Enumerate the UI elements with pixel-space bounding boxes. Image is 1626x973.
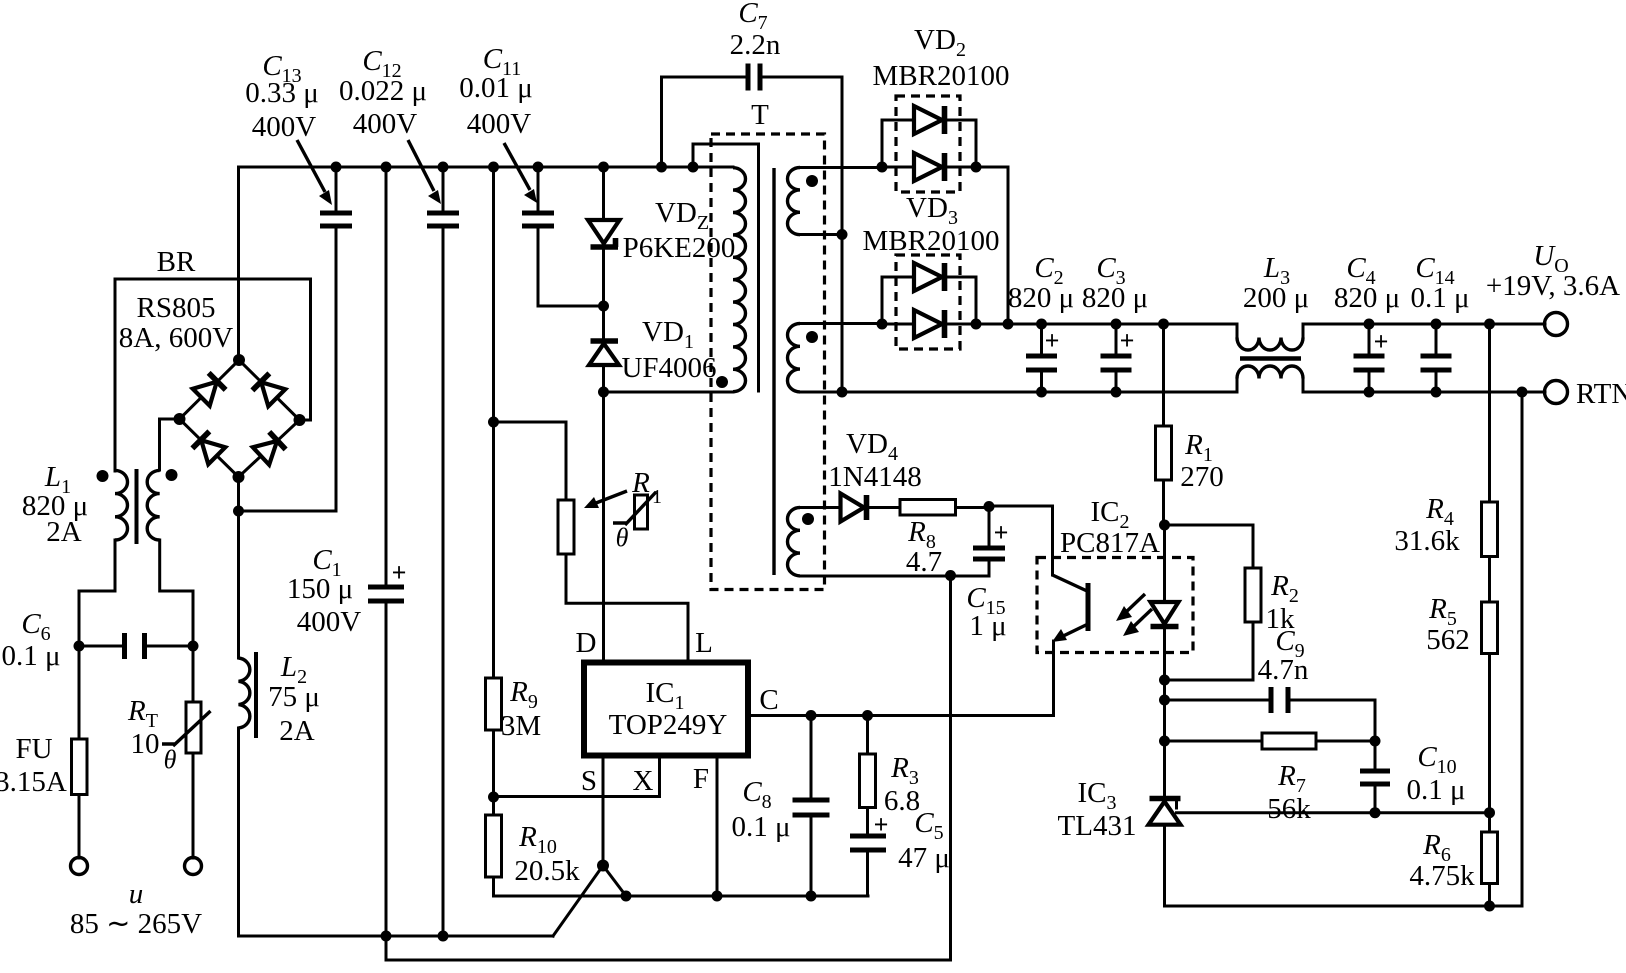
svg-text:820 μ: 820 μ: [1082, 282, 1148, 314]
wire L1 right bottom to C6 right node: [160, 540, 193, 702]
label R4: [1425, 493, 1454, 530]
capacitor C13: [239, 167, 353, 511]
inductor L2: [239, 652, 257, 738]
capacitor C1 bulk: [368, 167, 406, 960]
label L3: [1263, 252, 1290, 289]
svg-text:2A: 2A: [279, 715, 315, 747]
wire VD2 cathode to output rail: [976, 167, 1008, 324]
IC2 dashed box: [1037, 558, 1193, 653]
svg-text:150 μ: 150 μ: [287, 573, 353, 605]
label 400V C1: [297, 606, 362, 638]
wire primary ground bottom line: [386, 959, 951, 962]
svg-text:4.7n: 4.7n: [1258, 654, 1309, 686]
label UF4006: [621, 352, 716, 384]
label VD4: [846, 428, 898, 465]
svg-text:2.2n: 2.2n: [730, 29, 781, 61]
label pin S: [581, 765, 597, 797]
label C9: [1275, 625, 1304, 662]
wire secondary top bottom-end to C7 return: [800, 233, 842, 236]
rectifier VD2 parallel pair wires: [882, 120, 976, 167]
VD2 dashed box: [896, 96, 960, 192]
transformer T dashed box: [711, 134, 825, 590]
wire aux return line: [800, 575, 989, 578]
arrow pointer C11: [504, 143, 537, 203]
wire bridge left AC node to L1 right winding: [160, 419, 180, 470]
svg-text:820 μ: 820 μ: [1334, 282, 1400, 314]
label VD1: [642, 316, 694, 353]
svg-text:+: +: [994, 518, 1009, 547]
svg-text:+: +: [874, 810, 889, 839]
svg-text:+19V, 3.6A: +19V, 3.6A: [1486, 270, 1620, 302]
wire X pin bracket to divider: [494, 758, 660, 797]
svg-text:0.1 μ: 0.1 μ: [731, 811, 790, 843]
svg-text:1 μ: 1 μ: [969, 610, 1006, 642]
svg-text:BR: BR: [157, 246, 196, 278]
capacitor C9: [1165, 687, 1376, 741]
svg-text:+: +: [1120, 326, 1135, 355]
transformer secondary winding top: [788, 168, 801, 235]
svg-text:47 μ: 47 μ: [898, 842, 950, 874]
svg-text:270: 270: [1180, 461, 1224, 493]
capacitor C5: [850, 810, 888, 896]
label TOP249Y: [609, 709, 728, 741]
svg-text:+: +: [392, 558, 407, 587]
svg-text:56k: 56k: [1267, 793, 1311, 825]
svg-text:0.01 μ: 0.01 μ: [459, 72, 533, 104]
arrow pointer C12: [408, 140, 441, 204]
wire bridge right AC node to L1 left winding: [115, 279, 311, 471]
label 31.6k: [1394, 525, 1460, 557]
label +19V 3.6A: [1486, 270, 1620, 302]
resistor R4: [1482, 324, 1498, 602]
svg-text:C: C: [759, 684, 778, 716]
svg-text:3M: 3M: [501, 710, 541, 742]
label pin F: [693, 763, 709, 795]
label 562: [1426, 624, 1470, 656]
terminal UO: [1545, 313, 1568, 336]
label 400V C11: [467, 108, 532, 140]
label u: [129, 878, 144, 910]
diode VD2 upper: [914, 106, 945, 134]
wire top DC bus rail: [239, 166, 734, 169]
diode VD2 lower: [914, 153, 945, 181]
label 0.022u: [339, 75, 427, 107]
label BR: [157, 246, 196, 278]
label VD2: [914, 24, 966, 61]
diode VD1: [589, 341, 619, 392]
label 10: [131, 728, 160, 760]
fuse FU: [72, 739, 88, 795]
svg-text:400V: 400V: [297, 606, 362, 638]
label R6: [1422, 829, 1451, 866]
diode BR bottom-right: [253, 432, 286, 465]
capacitor C6: [79, 633, 193, 659]
wire VD4 to R8: [867, 506, 901, 509]
label pin C: [759, 684, 778, 716]
label 20.5k: [514, 855, 580, 887]
svg-text:MBR20100: MBR20100: [873, 60, 1010, 92]
wire C pin line: [751, 714, 1054, 717]
diode BR bottom-left: [192, 431, 225, 464]
L1 polarity dot right: [166, 469, 178, 481]
secondary top polarity dot: [806, 175, 818, 187]
label 3.15A: [0, 766, 67, 798]
svg-text:MBR20100: MBR20100: [863, 225, 1000, 257]
label FU: [15, 733, 52, 765]
svg-text:θ: θ: [616, 523, 629, 552]
label R10: [518, 821, 557, 858]
label C3: [1096, 252, 1125, 289]
resistor R2: [1245, 568, 1261, 622]
L1 polarity dot left: [97, 470, 109, 482]
svg-text:L: L: [695, 627, 713, 659]
transformer auxiliary winding: [788, 508, 801, 576]
JUNCTION-DOTS: [74, 162, 1528, 942]
label 47u: [898, 842, 950, 874]
label 8A 600V: [119, 322, 233, 354]
transformer shield line connected to rail: [693, 144, 759, 391]
svg-text:0.022 μ: 0.022 μ: [339, 75, 427, 107]
label IC1: [646, 677, 685, 714]
resistor R7: [1165, 733, 1376, 749]
svg-text:1N4148: 1N4148: [828, 461, 921, 493]
label pin D: [576, 627, 597, 659]
label MBR20100 VD2: [873, 60, 1010, 92]
wire secondary top to VD2: [800, 166, 882, 169]
wire aux winding to VD4: [800, 506, 840, 509]
auxiliary polarity dot: [802, 513, 814, 525]
label 1N4148: [828, 461, 921, 493]
svg-text:+: +: [1374, 327, 1389, 356]
label L2: [280, 651, 307, 688]
label 0.1u C14: [1410, 282, 1469, 314]
svg-text:200 μ: 200 μ: [1243, 282, 1309, 314]
diode BR top-left: [193, 373, 226, 406]
arrow pointer Rx1: [584, 491, 627, 508]
label Rx1 with thermistor glyph: [613, 467, 662, 552]
svg-text:T: T: [751, 99, 769, 131]
svg-text:0.1 μ: 0.1 μ: [1406, 774, 1465, 806]
label C5: [914, 807, 943, 844]
svg-text:UF4006: UF4006: [621, 352, 716, 384]
svg-text:820 μ: 820 μ: [1008, 282, 1074, 314]
label 820u: [22, 490, 88, 522]
svg-text:RTN: RTN: [1576, 378, 1626, 410]
thermistor RT: [162, 702, 211, 753]
label IC3: [1078, 777, 1117, 814]
label RTN: [1576, 378, 1626, 410]
terminal RTN: [1545, 381, 1568, 404]
label C14: [1415, 252, 1454, 289]
capacitor C2: [1026, 324, 1059, 392]
label 6.8: [884, 785, 920, 817]
bridge rectifier BR diamond wires: [180, 360, 300, 477]
svg-text:3.15A: 3.15A: [0, 766, 67, 798]
opto LED: [1151, 525, 1179, 680]
svg-text:8A, 600V: 8A, 600V: [119, 322, 233, 354]
svg-text:75 μ: 75 μ: [268, 681, 320, 713]
svg-text:u: u: [129, 878, 144, 910]
svg-text:0.33 μ: 0.33 μ: [245, 77, 319, 109]
terminal input left: [71, 858, 88, 875]
label 1u: [969, 610, 1006, 642]
label VDZ: [655, 197, 709, 234]
svg-text:FU: FU: [15, 733, 52, 765]
svg-text:+: +: [1045, 326, 1060, 355]
wire aux return to bottom line: [949, 576, 952, 961]
opto light arrows: [1116, 594, 1152, 636]
wire R10 bottom to source return line: [494, 877, 869, 896]
label 400V C12: [353, 108, 418, 140]
wire ground diagonal to S node: [553, 866, 603, 937]
label 0.01u: [459, 72, 533, 104]
capacitor C11: [522, 167, 604, 306]
wire bridge plus to rail: [237, 167, 240, 360]
wire VDZ to VD1 node: [602, 247, 605, 341]
label P6KE200: [623, 232, 736, 264]
label R3: [890, 752, 919, 789]
svg-text:RS805: RS805: [137, 292, 216, 324]
label R8: [907, 516, 936, 553]
svg-text:PC817A: PC817A: [1060, 527, 1160, 559]
capacitor C7: [662, 64, 843, 393]
label C7: [738, 0, 767, 34]
transformer secondary winding bottom: [788, 324, 801, 392]
label pin X: [633, 765, 654, 797]
label 2A L2: [279, 715, 315, 747]
wire R1 to R2: [1165, 525, 1254, 568]
capacitor C10: [1360, 741, 1390, 813]
label 0.1u: [1, 640, 60, 672]
resistor R3: [860, 716, 876, 837]
wire cathode node vertical: [1163, 680, 1166, 799]
label 4.75k: [1409, 860, 1475, 892]
capacitor C4: [1354, 324, 1389, 392]
label 2A: [46, 516, 82, 548]
svg-text:TOP249Y: TOP249Y: [609, 709, 728, 741]
svg-text:20.5k: 20.5k: [514, 855, 580, 887]
label UO: [1533, 240, 1568, 277]
label T: [751, 99, 769, 131]
label 0.33u: [245, 77, 319, 109]
svg-text:400V: 400V: [252, 111, 317, 143]
VD3 dashed box: [896, 255, 960, 349]
label C1: [312, 544, 341, 581]
resistor R8: [900, 500, 956, 516]
label L1: [44, 461, 71, 498]
wire VDZ branch from rail: [602, 167, 605, 220]
wire plus19 rail: [976, 323, 1545, 326]
svg-text:400V: 400V: [353, 108, 418, 140]
wire TL431 anode ground line: [1165, 392, 1523, 906]
inductor L1 common-mode choke: [115, 469, 160, 544]
wire resistor Rx1 tap: [494, 167, 567, 678]
label 200u: [1243, 282, 1309, 314]
diode VD3 lower: [914, 310, 945, 338]
label R1: [1184, 429, 1213, 466]
label C8: [742, 776, 771, 813]
svg-text:0.1 μ: 0.1 μ: [1410, 282, 1469, 314]
wire bridge minus down through L2 to primary ground: [239, 477, 554, 936]
wire R9 to R10 with X tap: [492, 730, 495, 815]
label PC817A: [1060, 527, 1160, 559]
shunt regulator IC3 TL431: [1149, 799, 1490, 907]
label 75u: [268, 681, 320, 713]
label 2.2n: [730, 29, 781, 61]
wire Rx1 to L pin: [566, 554, 688, 661]
label C13: [262, 50, 301, 87]
svg-text:P6KE200: P6KE200: [623, 232, 736, 264]
resistor Rx1: [558, 500, 574, 554]
capacitor C8: [793, 716, 830, 897]
label 0.1u C10: [1406, 774, 1465, 806]
transformer core line: [772, 168, 775, 575]
svg-text:31.6k: 31.6k: [1394, 525, 1460, 557]
wire S node diagonal to return line: [603, 866, 626, 897]
rectifier VD3 parallel pair wires: [882, 277, 976, 324]
diode BR top-right: [252, 373, 285, 406]
label 400V C13: [252, 111, 317, 143]
wire VD1 anode to primary bottom and D pin: [604, 392, 734, 660]
capacitor C15: [973, 508, 1008, 576]
opto phototransistor: [1052, 575, 1088, 716]
capacitor C3: [1101, 324, 1135, 392]
svg-text:D: D: [576, 627, 597, 659]
label IC2: [1091, 496, 1130, 533]
label VD3: [906, 192, 958, 229]
label R5: [1428, 593, 1457, 630]
svg-text:TL431: TL431: [1058, 810, 1137, 842]
wire F pin to source return: [716, 758, 719, 896]
label RT: [127, 695, 158, 732]
label 4.7n: [1258, 654, 1309, 686]
capacitor C14: [1421, 324, 1452, 392]
label 4.7: [906, 546, 942, 578]
label C4: [1346, 252, 1375, 289]
svg-text:S: S: [581, 765, 597, 797]
label C15: [966, 582, 1005, 619]
zener VDZ: [588, 220, 620, 247]
label 1k: [1266, 603, 1296, 635]
resistor R10: [486, 815, 502, 877]
secondary bottom polarity dot: [806, 331, 818, 343]
wire R8 to C15 and opto collector: [956, 506, 1053, 575]
label 56k: [1267, 793, 1311, 825]
label 150u: [287, 573, 353, 605]
label pin L: [695, 627, 713, 659]
svg-text:2A: 2A: [46, 516, 82, 548]
label C10: [1417, 741, 1456, 778]
svg-text:θ: θ: [164, 745, 177, 774]
label R2: [1270, 570, 1299, 607]
label 0.1u C8: [731, 811, 790, 843]
primary polarity dot: [716, 376, 728, 388]
label 820u C4: [1334, 282, 1400, 314]
wire secondary bottom to VD3: [800, 322, 882, 325]
label 270: [1180, 461, 1224, 493]
svg-text:85 ∼ 265V: 85 ∼ 265V: [70, 908, 202, 940]
wire RTN rail: [800, 391, 1545, 394]
svg-text:F: F: [693, 763, 709, 795]
label 820u C3: [1082, 282, 1148, 314]
label R7: [1277, 760, 1306, 797]
diode VD3 upper: [914, 263, 945, 291]
wire RT to terminal: [192, 753, 195, 858]
transformer primary winding: [733, 168, 746, 392]
label C12: [362, 45, 401, 82]
svg-text:X: X: [633, 765, 654, 797]
svg-text:400V: 400V: [467, 108, 532, 140]
label theta RT: [164, 745, 177, 774]
svg-text:0.1 μ: 0.1 μ: [1, 640, 60, 672]
resistor R6: [1482, 813, 1498, 906]
svg-text:562: 562: [1426, 624, 1470, 656]
label 3M: [501, 710, 541, 742]
svg-text:10: 10: [131, 728, 160, 760]
label R9: [509, 676, 538, 713]
label C2: [1034, 252, 1063, 289]
arrow pointer C13: [297, 140, 332, 205]
label C11: [483, 43, 522, 80]
wire S pin to S node: [602, 758, 605, 866]
wire R2 bottom to cathode node: [1165, 622, 1254, 680]
wire fuse to terminal: [78, 795, 81, 859]
wire L1 left bottom to C6 left node: [79, 540, 115, 739]
svg-text:4.75k: 4.75k: [1409, 860, 1475, 892]
resistor R1: [1156, 324, 1172, 525]
label 820u C2: [1008, 282, 1074, 314]
capacitor C12: [427, 167, 459, 936]
label TL431: [1058, 810, 1137, 842]
label MBR20100 VD3: [863, 225, 1000, 257]
diode VD4: [841, 494, 867, 522]
resistor R5: [1482, 602, 1498, 813]
label RS805: [137, 292, 216, 324]
terminal input right: [185, 858, 202, 875]
label C6: [21, 608, 50, 645]
svg-text:4.7: 4.7: [906, 546, 942, 578]
inductor L3 output choke: [1237, 324, 1303, 392]
resistor R9: [486, 678, 502, 730]
label 85-265V: [70, 908, 202, 940]
IC1 TOP249Y box: [584, 663, 748, 756]
